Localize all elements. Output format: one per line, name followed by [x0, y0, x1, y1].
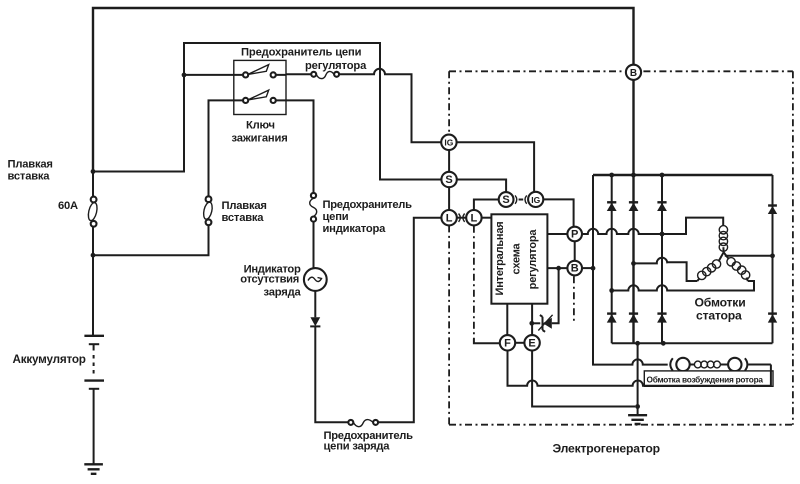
brush (right)	[745, 358, 748, 370]
wire: upper switch output to regulator fuse	[276, 73, 312, 76]
terminal L2 (connector, harness side)	[466, 210, 481, 225]
terminal E	[524, 335, 539, 350]
generator dashed enclosure: bottom edge	[449, 424, 793, 426]
label: Индикатор отсутствия заряда	[240, 264, 301, 299]
terminal IG2	[528, 192, 543, 207]
svg-text:зажигания: зажигания	[232, 132, 288, 144]
svg-text:индикатора: индикатора	[323, 223, 387, 235]
ground: generator	[628, 407, 647, 425]
svg-text:IG: IG	[444, 138, 453, 148]
rectifier: top rail	[593, 174, 773, 176]
wire: phase C lead with hops	[612, 281, 754, 291]
wire: star point to right diode column	[725, 255, 773, 257]
battery GB1	[84, 336, 104, 464]
wire: L2 up to S2	[474, 200, 499, 210]
diode VD1 (series with lamp, pointing down)	[310, 317, 320, 326]
rotor field coil	[694, 361, 720, 368]
label: Аккумулятор	[13, 353, 86, 366]
node: junction zener on E lead	[529, 321, 534, 326]
wire: riser above 60A fusible link	[92, 172, 94, 197]
svg-text:регулятора: регулятора	[527, 229, 539, 290]
wire: field coil to right ring	[720, 364, 728, 366]
wire: IG2 right and down to terminal P	[543, 199, 573, 226]
wire: phase B lead with hop over col3	[634, 258, 698, 281]
wire: P to stator phase A with hops	[582, 229, 662, 234]
svg-text:Аккумулятор: Аккумулятор	[13, 353, 86, 366]
svg-text:L: L	[471, 212, 478, 224]
terminal B (generator output, on top edge)	[626, 65, 641, 80]
wire: feed into ignition switch	[184, 74, 243, 76]
wire: lamp to diode	[314, 291, 316, 317]
wire: regulator to terminal P	[547, 233, 567, 235]
generator dashed enclosure: left edge (through IG,S,L)	[448, 71, 450, 424]
fusible link 60A	[87, 197, 99, 227]
node: junction at ground	[635, 404, 640, 409]
label: Ключ зажигания	[232, 120, 288, 145]
wire: rectifier column 3	[661, 175, 663, 343]
generator dashed enclosure: top edge	[449, 70, 793, 72]
terminal IG (connector, generator side)	[441, 135, 456, 150]
wire: E to ground	[532, 351, 635, 407]
wire: regulator down to F	[506, 304, 508, 335]
lamp HL1 (charge indicator)	[304, 268, 327, 291]
wire: diode down and right to charge fuse	[315, 326, 348, 422]
node: junction phase C column 1	[609, 288, 614, 293]
wire: L2 to regulator box	[482, 217, 492, 219]
node: top rail junction col3	[660, 173, 665, 178]
diode VD8 (lower col2)	[629, 314, 639, 323]
regulator box U1	[491, 214, 547, 303]
wire: right brush to return corner	[748, 364, 771, 366]
diode VD4 (upper col2)	[629, 202, 639, 211]
svg-text:цепи заряда: цепи заряда	[324, 441, 391, 453]
terminal L (connector, generator side)	[441, 210, 456, 225]
diode VD10 (lower right, neutral)	[768, 314, 777, 323]
slip ring (left)	[676, 358, 689, 371]
stator coil A (vertical)	[719, 226, 727, 253]
wire: S1 to S2	[457, 180, 506, 193]
dashed link L2 down to F	[474, 226, 500, 343]
wire: second link to lower switch contact	[209, 100, 244, 196]
stator coil C (lower right)	[724, 252, 750, 281]
wire: phase A lead into stator	[662, 218, 723, 234]
label: 60А	[58, 200, 78, 212]
fuse F2 (indicator circuit fuse)	[310, 193, 317, 222]
svg-text:S: S	[502, 194, 509, 206]
wire: regulator to terminal B2	[547, 267, 567, 269]
wire: B terminal riser through rectifier	[632, 80, 634, 343]
svg-text:статора: статора	[696, 309, 742, 323]
label: Обмотки статора	[695, 295, 746, 322]
svg-text:B: B	[571, 263, 579, 275]
wire: lower switch output to indicator fuse	[276, 100, 314, 192]
ignition switch box	[234, 60, 286, 114]
wire: charge fuse up to terminal L	[378, 218, 442, 423]
svg-text:отсутствия: отсутствия	[240, 274, 299, 286]
label box: Обмотка возбуждения ротора	[644, 371, 773, 386]
svg-text:Ключ: Ключ	[246, 120, 275, 132]
diode VD5 (upper col3)	[657, 202, 667, 211]
wire: B2 to rectifier left rail	[582, 267, 593, 269]
wire: fuse to terminal IG with hop over bypass wire	[339, 69, 441, 142]
label: Плавкая вставка (second)	[222, 200, 267, 224]
terminal S (connector, generator side)	[441, 172, 456, 187]
wire: regulator down to E	[531, 304, 533, 335]
node: junction phase B column 2	[631, 261, 636, 266]
diode VD6 (upper right, neutral)	[768, 206, 777, 215]
wire: ring to field coil	[690, 364, 695, 366]
terminal B2 (regulator B)	[567, 261, 582, 276]
zener diode VD2 with slash	[532, 268, 559, 332]
label: Предохранитель цепи заряда	[324, 430, 414, 452]
slip ring (right)	[728, 358, 741, 371]
svg-text:Обмотка возбуждения ротора: Обмотка возбуждения ротора	[647, 375, 764, 385]
wire: junction to ignition switch feed	[93, 75, 184, 172]
label: Предохранитель цепи индикатора	[323, 199, 413, 235]
svg-text:Электрогенератор: Электрогенератор	[553, 442, 660, 456]
svg-text:B: B	[630, 68, 637, 79]
svg-text:Предохранитель цепи: Предохранитель цепи	[241, 47, 362, 59]
svg-text:Плавкая: Плавкая	[222, 200, 267, 212]
label: Предохранитель цепи регулятора	[241, 47, 367, 72]
svg-text:Интегральная: Интегральная	[494, 221, 506, 295]
wire: F to E stub	[515, 342, 524, 344]
brush (left)	[670, 358, 673, 370]
diode VD7 (lower col1)	[607, 314, 617, 323]
node: bottom rail junction col3	[661, 341, 666, 346]
svg-text:60А: 60А	[58, 200, 78, 212]
svg-text:вставка: вставка	[222, 212, 265, 224]
svg-text:E: E	[528, 337, 535, 349]
dashed stub below B2	[573, 276, 575, 322]
stator coil B (lower left)	[697, 252, 723, 281]
svg-text:Предохранитель: Предохранитель	[323, 199, 413, 211]
svg-text:схема: схема	[511, 242, 523, 274]
svg-text:IG: IG	[531, 195, 540, 205]
svg-text:вставка: вставка	[8, 171, 51, 183]
node: junction battery riser / switch feed	[91, 169, 96, 174]
fusible link FL2	[202, 196, 214, 225]
wire: indicator fuse to lamp	[313, 222, 315, 269]
wire: IG1 to IG2	[457, 142, 534, 191]
diode VD3 (upper col1)	[607, 202, 617, 211]
node: bottom rail junction ground riser	[635, 341, 640, 346]
fuse F1 (regulator circuit fuse)	[311, 71, 339, 78]
wire: ground riser from bottom rail	[637, 343, 639, 404]
switch SW1 upper contacts and blade	[243, 65, 276, 78]
label: Плавкая вставка (left)	[8, 159, 53, 183]
svg-text:цепи: цепи	[323, 211, 349, 223]
label: Электрогенератор	[553, 442, 660, 456]
ground: battery	[84, 464, 103, 474]
connector marks between S2 and IG2	[515, 195, 527, 203]
diode VD9 (lower col3)	[657, 314, 667, 323]
svg-text:L: L	[446, 212, 453, 224]
svg-text:Плавкая: Плавкая	[8, 159, 53, 171]
wire: rectifier column 1	[611, 175, 613, 343]
svg-text:заряда: заряда	[264, 287, 302, 299]
node: junction zener to B wire	[556, 266, 561, 271]
terminal F	[500, 335, 515, 350]
fuse F3 (charge circuit fuse)	[348, 420, 378, 427]
svg-text:P: P	[571, 229, 578, 241]
wire: 60A link to battery	[92, 227, 94, 335]
svg-text:Обмотки: Обмотки	[695, 295, 746, 309]
wire: battery feed, left riser + top bus to generator B	[93, 8, 634, 172]
generator dashed enclosure: right edge	[792, 71, 794, 424]
wire: junction to second fusible link bottom	[93, 225, 209, 255]
wire: field return down and back to F	[508, 351, 771, 386]
node: junction B on left rail	[591, 266, 596, 271]
node: top rail junction col1	[609, 173, 614, 178]
node: junction to second fusible link	[91, 253, 96, 258]
switch SW1 lower contacts and blade	[243, 90, 276, 103]
node: junction neutral on right column	[770, 253, 775, 258]
node: junction phase A column 3	[660, 232, 665, 237]
wire: P to B vertical link	[574, 241, 576, 261]
label: Интегральная схема регулятора (rotated)	[494, 221, 539, 295]
rectifier: bottom rail	[612, 342, 773, 344]
wire: rectifier right column	[772, 175, 774, 343]
terminal P	[567, 227, 582, 242]
node: junction at switch feed	[182, 73, 187, 78]
connector marks between L and L	[457, 214, 466, 222]
svg-text:регулятора: регулятора	[305, 60, 367, 72]
wire: left rail down to rotor feed	[593, 175, 668, 365]
wire: bypass from junction up and over to terminal S	[184, 43, 442, 180]
node: top rail junction col2	[631, 173, 636, 178]
terminal S2	[499, 192, 514, 207]
svg-text:F: F	[504, 337, 511, 349]
svg-text:S: S	[445, 174, 452, 186]
